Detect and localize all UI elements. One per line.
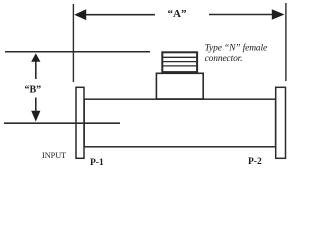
arrow B down [31,98,40,122]
svg-text:connector.: connector. [205,54,243,64]
body tube [84,99,275,147]
reference line at connector top (B dimension) [5,51,150,53]
svg-text:INPUT: INPUT [42,151,66,160]
svg-text:P-2: P-2 [248,157,262,167]
nut hatch line 3 [162,65,197,67]
svg-text:Type “N” female: Type “N” female [205,42,268,53]
svg-text:P-1: P-1 [90,158,104,168]
arrowhead A right [272,9,285,19]
nut hatch line 1 [162,56,197,58]
flange P-1 [76,87,84,158]
dimension line A right segment [209,14,278,16]
flange P-2 [276,87,286,158]
arrowhead A left [74,9,86,20]
dimension line A left segment [80,14,155,16]
svg-text:“B”: “B” [24,84,41,95]
extension line left of dimension A [72,4,74,82]
arrow B up [31,53,40,79]
centerline (B bottom reference) [4,122,120,124]
connector nut (hatched) [162,52,197,72]
svg-text:“A”: “A” [168,8,187,20]
nut hatch line 2 [162,61,197,63]
connector base [156,73,203,99]
label: Type "N" female connector note [205,42,268,64]
extension line right of dimension A [285,3,287,81]
